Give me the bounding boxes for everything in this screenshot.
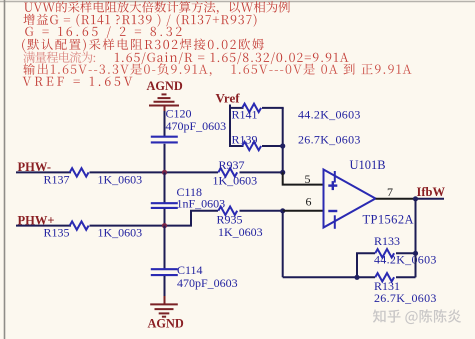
junction feedback row / left vertical	[354, 275, 359, 280]
svg-text:AGND: AGND	[148, 316, 184, 330]
note text line 7	[23, 77, 133, 86]
capacitor C114	[151, 269, 178, 275]
svg-text:C120: C120	[166, 106, 192, 120]
watermark 知乎 @陈陈炎	[373, 309, 461, 324]
svg-text:1K_0603: 1K_0603	[98, 172, 143, 186]
pin 5 wire	[283, 172, 324, 184]
wire R133/R131 left vertical	[356, 253, 358, 277]
wire divider right vertical	[282, 108, 284, 172]
wire C118 to PHW+ net	[164, 209, 166, 226]
wire PHW- to C118	[164, 172, 166, 202]
resistor R937	[218, 168, 237, 176]
svg-text:R937: R937	[219, 158, 245, 172]
note text line 6	[23, 63, 411, 76]
wire output to IfbW	[416, 198, 445, 200]
svg-text:C114: C114	[177, 263, 203, 277]
svg-text:1K_0603: 1K_0603	[98, 225, 143, 239]
wire PHW- net	[16, 171, 283, 173]
junction PHW+ / C114 column	[162, 223, 167, 228]
svg-text:26.7K_0603: 26.7K_0603	[374, 291, 437, 305]
wire output down to feedback	[415, 199, 417, 277]
pin 7 wire	[376, 198, 416, 200]
svg-text:5: 5	[305, 172, 311, 186]
wire R139 row	[229, 145, 283, 147]
svg-text:44.2K_0603: 44.2K_0603	[298, 108, 361, 122]
svg-text:R133: R133	[374, 234, 400, 248]
junction R139 / divider vertical	[280, 143, 285, 148]
resistor R935	[218, 207, 237, 215]
junction output / feedback	[413, 196, 418, 201]
note text line 4	[22, 39, 264, 52]
svg-text:Vref: Vref	[216, 90, 241, 105]
svg-text:R139: R139	[232, 133, 258, 147]
svg-text:470pF_0603: 470pF_0603	[166, 119, 227, 133]
wire C120 to PHW- net	[164, 144, 166, 173]
wire R133 row	[356, 252, 416, 254]
capacitor C118	[151, 203, 178, 208]
note text line 2	[24, 14, 257, 27]
wire C114 to AGND	[164, 276, 166, 298]
power symbol AGND bottom	[150, 304, 178, 316]
note text line 3	[25, 26, 181, 38]
junction PHW- / C118 column	[162, 170, 167, 175]
op-amp U101B	[324, 170, 376, 229]
svg-text:44.2K_0603: 44.2K_0603	[374, 253, 437, 267]
power symbol AGND top	[149, 94, 179, 112]
svg-text:7: 7	[387, 185, 393, 199]
svg-text:R135: R135	[44, 225, 70, 239]
junction R133 / output vertical	[413, 251, 418, 256]
wire feedback vertical from pin 6	[282, 211, 284, 277]
resistor R137	[70, 168, 89, 176]
note text line 1	[24, 1, 290, 14]
svg-text:6: 6	[306, 194, 312, 208]
wire AGND to C120	[164, 111, 166, 137]
wire R141 top	[229, 107, 284, 109]
note text line 5	[24, 51, 349, 64]
resistor R141	[242, 104, 261, 112]
resistor R133	[375, 249, 394, 257]
wire PHW+ to C114	[164, 226, 166, 269]
svg-text:R141: R141	[232, 108, 258, 122]
svg-text:1nF_0603: 1nF_0603	[177, 197, 226, 211]
junction PHW- / R139 net	[280, 170, 285, 175]
pin 6 wire	[283, 210, 324, 212]
capacitor C120	[151, 137, 178, 143]
svg-text:TP1562A: TP1562A	[363, 212, 414, 226]
svg-text:26.7K_0603: 26.7K_0603	[298, 133, 361, 147]
resistor R135	[70, 221, 89, 229]
wire Vref vertical	[229, 105, 231, 148]
svg-text:1K_0603: 1K_0603	[218, 225, 263, 239]
svg-text:AGND: AGND	[147, 79, 183, 93]
resistor R131	[375, 273, 394, 281]
resistor R139	[242, 142, 261, 150]
svg-text:1K_0603: 1K_0603	[213, 173, 258, 187]
wire feedback bottom row	[283, 276, 416, 278]
junction inverting input / feedback	[280, 208, 285, 213]
svg-text:IfbW: IfbW	[417, 185, 446, 199]
svg-text:470pF_0603: 470pF_0603	[177, 276, 238, 290]
svg-text:U101B: U101B	[350, 158, 386, 172]
wire PHW+ net	[16, 211, 283, 226]
svg-text:R137: R137	[44, 172, 70, 186]
